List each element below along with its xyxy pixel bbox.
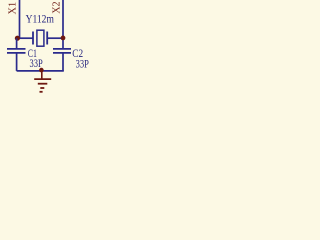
capacitor C2 bottom plate bbox=[53, 52, 71, 54]
ground symbol bar 2 bbox=[38, 83, 48, 85]
capacitor C2 top plate bbox=[53, 48, 71, 50]
ground symbol stem bbox=[41, 70, 43, 79]
junction dot ground bbox=[39, 68, 44, 73]
wire left horizontal to crystal bbox=[17, 37, 33, 39]
wire right horizontal from crystal bbox=[48, 37, 64, 39]
wire bottom horizontal bus bbox=[17, 70, 64, 72]
capacitor C1 bottom plate bbox=[7, 52, 26, 54]
sheet background bbox=[0, 0, 90, 95]
wire C1 top lead bbox=[16, 38, 18, 48]
wire right vertical (net X2) bbox=[62, 0, 64, 49]
svg-text:33P: 33P bbox=[76, 56, 89, 70]
crystal Y1 body rectangle bbox=[37, 30, 44, 46]
wire C1 bottom lead bbox=[16, 53, 18, 71]
crystal Y1 left plate bbox=[32, 32, 34, 45]
ground symbol bar 3 bbox=[40, 87, 44, 89]
crystal Y1 right plate bbox=[46, 32, 48, 45]
ground symbol bar 1 bbox=[34, 78, 51, 80]
junction dot left bbox=[15, 36, 20, 41]
ground symbol bar 4 bbox=[40, 91, 43, 93]
capacitor C1 top plate bbox=[7, 48, 26, 50]
wire C2 bottom lead bbox=[62, 53, 64, 71]
wire left vertical (net X1) bbox=[19, 0, 21, 38]
junction dot right bbox=[61, 36, 66, 41]
svg-text:Y112m: Y112m bbox=[26, 11, 55, 25]
svg-text:X1: X1 bbox=[8, 2, 19, 15]
